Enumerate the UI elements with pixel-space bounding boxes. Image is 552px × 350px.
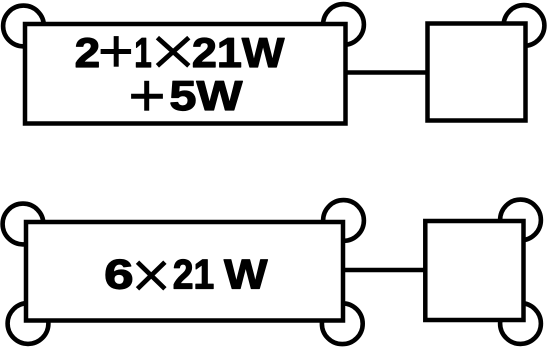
wire row1 — [346, 70, 428, 75]
lamp box row2 — [26, 222, 343, 321]
relay box row2 — [425, 221, 523, 320]
bulb circle row2 rect top-left — [3, 204, 44, 245]
bulb circle row2 rect bottom-right — [322, 303, 363, 344]
bulb circle row1 square top-right — [504, 5, 545, 46]
svg-text:W: W — [224, 251, 268, 298]
lamp box row1 — [25, 24, 346, 124]
svg-text:21: 21 — [173, 251, 215, 298]
bulb circle row2 square bottom-right — [500, 303, 541, 344]
wire row2 — [343, 268, 425, 273]
svg-text:21W: 21W — [192, 29, 285, 76]
svg-text:2: 2 — [75, 29, 101, 76]
svg-text:1: 1 — [134, 29, 152, 76]
bulb circle row1 rect top-left — [3, 6, 44, 47]
svg-text:5W: 5W — [169, 72, 242, 119]
relay box row1 — [428, 24, 526, 121]
bulb circle row2 square top-right — [500, 200, 541, 241]
label row1 plus sign — [101, 36, 132, 67]
label row2 times sign — [138, 262, 165, 289]
label row1 times sign — [157, 38, 188, 66]
bulb circle row1 rect top-right — [323, 4, 364, 45]
bulb circle row2 rect bottom-left — [8, 303, 49, 344]
label row1 line2 plus sign — [131, 81, 163, 111]
svg-text:6: 6 — [104, 251, 134, 298]
bulb circle row2 rect top-right — [323, 200, 364, 241]
